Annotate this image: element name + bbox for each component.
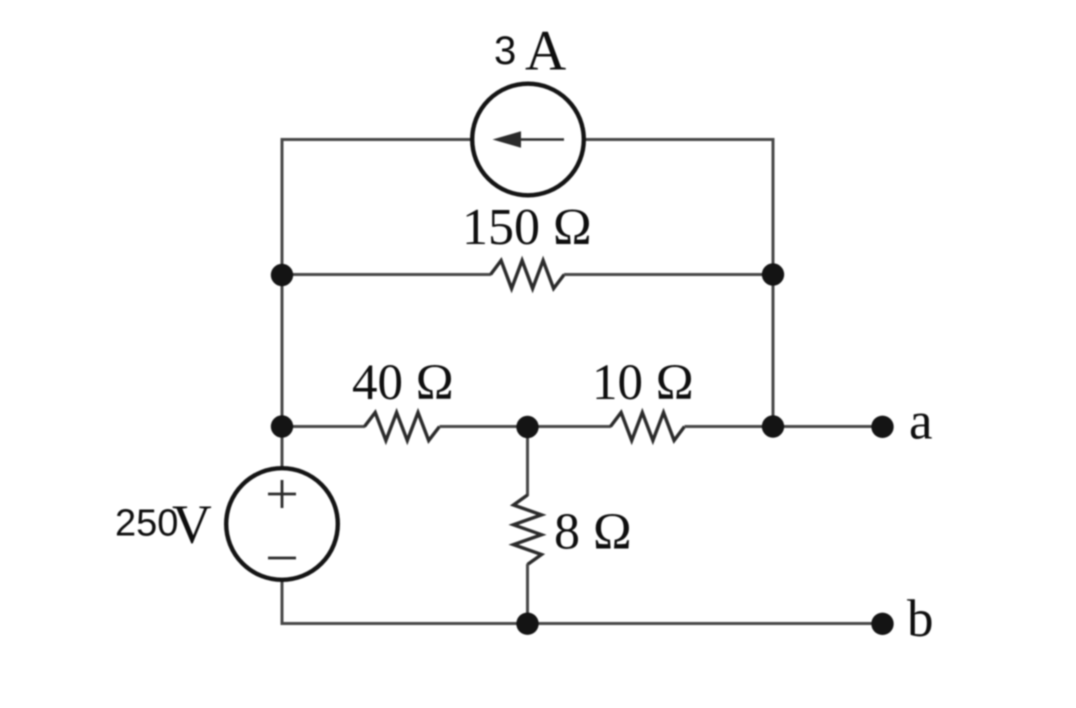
node dot left 40 row bbox=[271, 415, 293, 437]
svg-text:40 Ω: 40 Ω bbox=[352, 355, 454, 411]
svg-text:V: V bbox=[172, 494, 212, 555]
node dot bottom 8-ohm junction bbox=[516, 613, 538, 635]
svg-text:8 Ω: 8 Ω bbox=[554, 504, 632, 561]
voltage source plus sign bbox=[268, 480, 296, 508]
wire 8-ohm top stub bbox=[526, 427, 529, 497]
svg-text:250: 250 bbox=[115, 503, 178, 545]
svg-text:b: b bbox=[907, 590, 934, 648]
wire top-right horizontal bbox=[583, 138, 773, 141]
node dot right 150 row bbox=[762, 263, 784, 285]
wire 150-ohm row right bbox=[564, 273, 773, 276]
svg-text:a: a bbox=[909, 393, 933, 451]
node dot right vertical bottom bbox=[762, 415, 784, 437]
current source arrow bbox=[505, 138, 564, 141]
current source I1 3A circle bbox=[472, 84, 584, 196]
wire top-left horizontal bbox=[282, 138, 473, 141]
terminal b dot bbox=[871, 613, 893, 635]
wire bottom horizontal to terminal b bbox=[282, 622, 883, 625]
voltage source minus sign bbox=[268, 557, 296, 560]
node dot left 150 row bbox=[271, 264, 293, 286]
resistor R 10 ohm zigzag bbox=[611, 413, 685, 441]
wire 10-ohm row right to terminal a bbox=[685, 425, 883, 428]
svg-text:3: 3 bbox=[494, 29, 516, 73]
wire mid row between 40 and 10 bbox=[440, 425, 612, 428]
wire 8-ohm bottom stub bbox=[526, 564, 529, 625]
resistor R 40 ohm zigzag bbox=[365, 413, 440, 441]
wire 150-ohm row left bbox=[282, 273, 491, 276]
node dot middle 40-10 junction bbox=[516, 416, 538, 438]
wire 40-ohm row left bbox=[282, 425, 365, 428]
wire left vertical upper bbox=[281, 138, 284, 470]
wire left vertical lower bbox=[281, 578, 284, 625]
svg-text:10 Ω: 10 Ω bbox=[592, 355, 694, 411]
wire right vertical bbox=[772, 138, 775, 427]
voltage source V1 250V circle bbox=[226, 468, 338, 580]
resistor R 150 ohm zigzag bbox=[491, 261, 565, 289]
svg-text:A: A bbox=[525, 20, 566, 83]
svg-text:150 Ω: 150 Ω bbox=[462, 199, 592, 256]
resistor R 8 ohm zigzag vertical bbox=[514, 495, 542, 565]
terminal a dot bbox=[871, 416, 893, 438]
